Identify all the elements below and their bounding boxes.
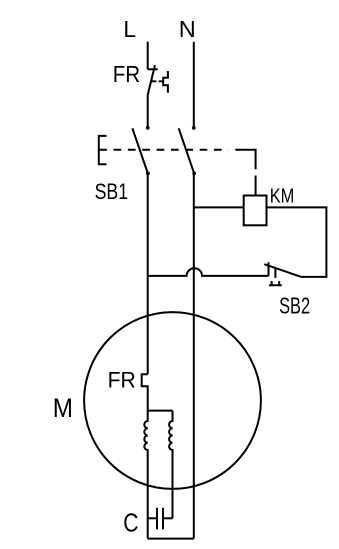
pushbutton SB2 : actuator stem [274, 268, 276, 278]
wire N line from terminal N down to switch pole 2 [193, 42, 195, 128]
svg-text:M: M [53, 393, 73, 423]
switch SB1 pole 1 : lower contact dot [146, 172, 150, 176]
auxiliary winding inductor (right coil) [169, 411, 172, 519]
thermal relay contact FR (normally-closed) : fixed contact tick [148, 68, 158, 70]
svg-text:C: C [123, 508, 138, 538]
wire L line between FR contact and switch pole 1 [147, 96, 149, 128]
wire from N line to KM coil [194, 206, 244, 208]
capacitor C : right lead from auxiliary winding [164, 517, 173, 519]
capacitor C : right plate [162, 508, 164, 530]
switch SB1 pole 2 : upper contact dot [192, 126, 196, 130]
svg-text:FR: FR [108, 368, 136, 393]
svg-text:L: L [123, 16, 136, 42]
switch SB1 pole 1 : blade [132, 128, 148, 173]
coil KM (contactor electromagnet) box [244, 196, 267, 226]
wire from KM coil right side down to pushbutton SB2 [267, 207, 327, 277]
wire N line down from switch pole 2 to bottom return [193, 174, 195, 539]
thermal relay contact FR : thermal release element [163, 71, 168, 93]
switch SB1 pole 1 : upper contact dot [146, 126, 150, 130]
svg-text:N: N [179, 16, 196, 42]
svg-text:SB1: SB1 [95, 179, 129, 204]
wire L feeder from terminal L down to FR contact [147, 42, 149, 70]
motor M : stator circle [84, 312, 261, 489]
thermal relay contact FR : moving blade [148, 65, 156, 95]
switch SB1 pole 2 : blade [179, 128, 195, 173]
node wire joining main and auxiliary winding tops [148, 410, 173, 412]
bottom return wire to N line [148, 538, 194, 540]
thermal relay contact FR : mechanical link dashes [150, 80, 163, 82]
capacitor C : left plate [156, 508, 158, 530]
switch linkage dash into KM coil box [255, 176, 257, 196]
pushbutton SB2 : fixed contact tick [268, 262, 270, 276]
switch SB1 manual operator bracket [99, 136, 107, 164]
wire L line down from switch pole 1 to motor heater [147, 174, 149, 375]
pushbutton SB2 : actuator cap [269, 281, 282, 285]
svg-text:KM: KM [270, 186, 295, 208]
thermal relay heater element FR inside motor branch [142, 374, 148, 410]
svg-text:FR: FR [113, 61, 141, 87]
switch SB1 pole 2 : lower contact dot [192, 172, 196, 176]
capacitor C : left lead to main line [148, 517, 156, 519]
switch SB1 mechanical linkage (dashed horizontal) [99, 149, 228, 151]
wire from SB2 to L line with crossover hump over N line [148, 268, 269, 276]
switch linkage corner dash to KM coil [235, 150, 255, 170]
main winding inductor (left coil) [144, 411, 147, 539]
svg-text:SB2: SB2 [279, 292, 310, 318]
pushbutton SB2 : blade [264, 264, 301, 277]
